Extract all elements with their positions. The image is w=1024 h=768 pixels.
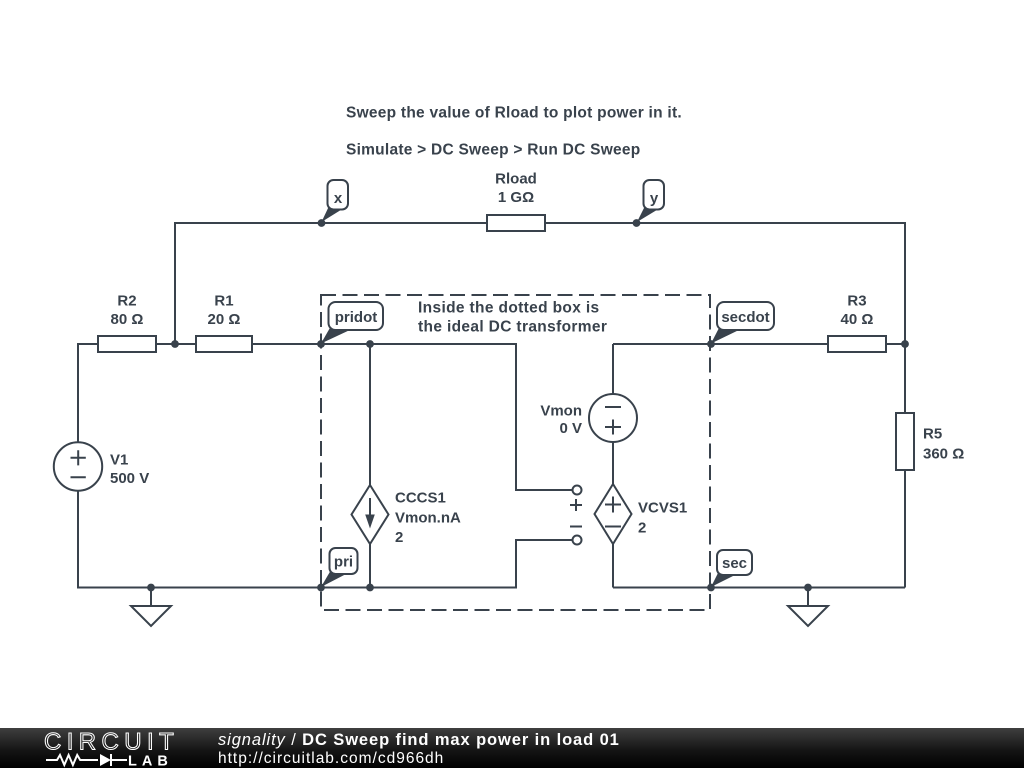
wire to plus terminal	[516, 343, 573, 490]
svg-text:y: y	[650, 190, 659, 207]
node pri dot	[317, 584, 325, 592]
junction R2-R1	[171, 340, 179, 348]
svg-text:40 Ω: 40 Ω	[841, 311, 874, 328]
label flag pridot	[321, 302, 383, 344]
svg-text:V1: V1	[110, 452, 128, 469]
node x dot	[318, 219, 326, 227]
svg-text:pri: pri	[334, 554, 353, 571]
ground left	[131, 588, 171, 627]
label flag pri	[321, 548, 358, 587]
junction R3-R5	[901, 340, 909, 348]
dashed transformer box	[321, 295, 710, 610]
wire V1 branch	[77, 343, 79, 589]
resistor Rload	[487, 171, 545, 232]
svg-text:R3: R3	[847, 293, 866, 310]
svg-text:LAB: LAB	[128, 754, 173, 768]
svg-text:R2: R2	[117, 293, 136, 310]
label flag secdot	[711, 302, 774, 344]
svg-text:pridot: pridot	[335, 309, 378, 326]
svg-text:Sweep the value of Rload to pl: Sweep the value of Rload to plot power i…	[346, 105, 682, 122]
junction CCCS1 bottom	[366, 584, 374, 592]
svg-text:80 Ω: 80 Ω	[111, 311, 144, 328]
svg-text:1 GΩ: 1 GΩ	[498, 189, 534, 206]
current source CCCS1	[352, 485, 461, 546]
svg-text:Simulate > DC Sweep > Run DC S: Simulate > DC Sweep > Run DC Sweep	[346, 142, 640, 159]
label flag y	[637, 180, 664, 222]
svg-text:CCCS1: CCCS1	[395, 490, 446, 507]
svg-text:Rload: Rload	[495, 171, 537, 188]
svg-text:Inside the dotted box is: Inside the dotted box is	[418, 300, 600, 317]
svg-text:500 V: 500 V	[110, 470, 149, 487]
wire secondary row	[613, 343, 905, 345]
voltage source Vmon	[540, 394, 637, 442]
label flag x	[322, 180, 349, 222]
ground right	[788, 588, 828, 627]
node secdot dot	[707, 340, 715, 348]
wire R5 branch	[904, 344, 906, 588]
svg-text:360 Ω: 360 Ω	[923, 446, 964, 463]
wire top net x to y	[175, 222, 905, 224]
wire left riser	[174, 222, 176, 345]
svg-text:0 V: 0 V	[559, 420, 582, 437]
footer bar	[0, 728, 1024, 768]
resistor R5	[896, 413, 964, 470]
junction ground left	[147, 584, 155, 592]
wire bottom primary	[78, 587, 516, 589]
resistor R2	[98, 293, 156, 353]
node y dot	[633, 219, 641, 227]
svg-text:CIRCUIT: CIRCUIT	[44, 729, 179, 756]
svg-text:sec: sec	[722, 555, 747, 572]
svg-text:2: 2	[395, 529, 403, 546]
svg-text:R1: R1	[214, 293, 233, 310]
resistor R3	[828, 293, 886, 353]
svg-text:secdot: secdot	[721, 309, 769, 326]
circuitlab logo	[0, 728, 220, 768]
junction ground right	[804, 584, 812, 592]
svg-text:Vmon: Vmon	[540, 403, 582, 420]
svg-text:Vmon.nA: Vmon.nA	[395, 510, 461, 527]
wire Vmon VCVS1 branch	[612, 344, 614, 588]
wire bottom secondary	[613, 587, 905, 589]
terminal plus	[570, 486, 582, 512]
wire to minus terminal	[516, 540, 573, 589]
terminal minus	[570, 527, 582, 545]
label flag sec	[711, 550, 752, 587]
wire primary row	[78, 343, 516, 345]
wire right riser	[904, 222, 906, 345]
svg-text:R5: R5	[923, 426, 942, 443]
svg-text:x: x	[334, 190, 343, 207]
svg-text:2: 2	[638, 520, 646, 537]
wire CCCS1 branch	[369, 344, 371, 588]
svg-text:20 Ω: 20 Ω	[208, 311, 241, 328]
node sec dot	[707, 584, 715, 592]
svg-text:VCVS1: VCVS1	[638, 500, 687, 517]
svg-text:the ideal DC transformer: the ideal DC transformer	[418, 319, 607, 336]
controlled source VCVS1	[595, 484, 688, 544]
footer url	[218, 750, 444, 768]
voltage source V1	[54, 442, 149, 490]
junction CCCS1 top	[366, 340, 374, 348]
node pridot dot	[317, 340, 325, 348]
footer title	[218, 731, 620, 750]
resistor R1	[196, 293, 252, 353]
